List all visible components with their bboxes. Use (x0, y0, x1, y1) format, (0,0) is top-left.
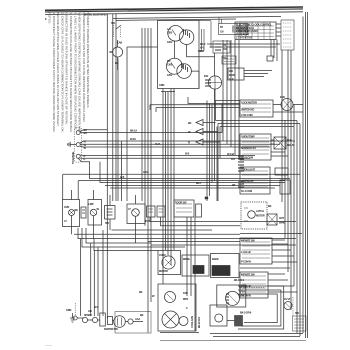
svg-text:MOTOR: MOTOR (159, 269, 168, 273)
power supply terminal L1 (68, 128, 82, 163)
svg-text:LMP: LMP (89, 202, 94, 206)
svg-text:IGNITOR SW: IGNITOR SW (104, 327, 118, 331)
wire (271, 40, 277, 62)
convection fan circle (281, 99, 293, 111)
element ticks (182, 63, 188, 72)
terminal dashed box (74, 128, 82, 163)
svg-text:3. CONNECTOR IN PLEASE RETURN: 3. CONNECTOR IN PLEASE RETURN STRAIGHT T… (69, 13, 73, 133)
right column: box1 lock motor (240, 99, 303, 118)
wire: pin bundle down (207, 89, 217, 201)
right column: box2 oven control (240, 134, 288, 160)
wires control to module (276, 24, 281, 36)
wire (162, 89, 164, 285)
fan motor circle (162, 311, 179, 328)
wire stubs to component row (72, 190, 136, 206)
terminal strip TB2 (238, 181, 244, 187)
connector arrows P1 (196, 120, 220, 146)
wire (213, 336, 300, 338)
wire (240, 233, 302, 235)
long verticals to bottom row (80, 239, 82, 316)
svg-text:MOD: MOD (229, 73, 235, 77)
component row: box oven light (63, 200, 80, 235)
notes text block (rotated) (48, 13, 91, 134)
svg-text:P COM N: P COM N (241, 260, 251, 264)
right column: box4 (240, 238, 297, 264)
bottom-left component row (70, 312, 151, 334)
svg-text:RELAY: RELAY (287, 143, 295, 147)
svg-text:2. CHECK CPN. 10 FLASHES T3 HO: 2. CHECK CPN. 10 FLASHES T3 HOURS CONNEC… (60, 13, 64, 133)
svg-text:SPARK: SPARK (84, 313, 92, 317)
wire (173, 89, 175, 251)
connector blob (267, 56, 273, 61)
comp cluster (82, 317, 87, 322)
left border vertical (106, 14, 108, 319)
svg-text:BK-8 W-9: BK-8 W-9 (234, 278, 245, 282)
svg-text:BK: BK (232, 183, 236, 187)
ground symbol (68, 142, 77, 147)
igniter contact marks (205, 80, 211, 86)
element ticks (184, 29, 190, 38)
svg-text:OVEN TEMP: OVEN TEMP (241, 135, 255, 139)
ground symbol (70, 313, 75, 322)
svg-text:1300: 1300 (167, 62, 173, 66)
svg-text:TCO: TCO (145, 219, 150, 223)
terminal circle (73, 316, 77, 320)
svg-text:DLB: DLB (287, 138, 292, 142)
svg-text:CAB: CAB (117, 41, 122, 45)
component row: box2 (88, 200, 102, 239)
small circle top (165, 292, 176, 303)
mid-bottom boxC bake element (211, 254, 240, 278)
relay rect with X (274, 137, 286, 149)
svg-text:WIRE: WIRE (279, 221, 285, 225)
wire (63, 174, 300, 199)
svg-text:BK-5 GR-6: BK-5 GR-6 (240, 311, 252, 315)
svg-text:BK: BK (188, 121, 192, 125)
wire (144, 28, 146, 226)
wire (82, 228, 185, 247)
svg-text:ULE: ULE (229, 77, 234, 81)
svg-text:INFINITE SW: INFINITE SW (241, 273, 255, 277)
top border lines (45, 7, 303, 15)
oven igniter circle (150, 53, 240, 112)
wire (148, 28, 240, 333)
bottom wires (160, 333, 303, 337)
svg-text:FAN: FAN (280, 95, 285, 99)
wire (78, 228, 296, 239)
svg-text:2350: 2350 (167, 30, 173, 34)
wire (80, 157, 250, 159)
wire (80, 130, 107, 132)
svg-text:CN: CN (223, 47, 227, 51)
svg-text:GR-8: GR-8 (143, 170, 149, 174)
svg-text:BK-7: BK-7 (196, 181, 202, 185)
wire (167, 92, 169, 255)
svg-text:4. LABEL ALL WIRES PRIOR TO DI: 4. LABEL ALL WIRES PRIOR TO DISCONNECTIO… (73, 13, 77, 131)
power supply terminal L2 (76, 154, 80, 158)
svg-text:CN: CN (220, 30, 224, 34)
svg-text:NOTES:: NOTES: (48, 13, 52, 24)
wire (112, 229, 213, 231)
svg-text:BAKE: BAKE (212, 257, 219, 261)
wire (105, 185, 280, 187)
svg-text:120V: 120V (167, 73, 173, 77)
mid-right small relay (267, 214, 277, 225)
terminal strip TB1 (238, 156, 244, 171)
svg-text:HOT: HOT (279, 216, 284, 220)
svg-text:BROIL: BROIL (183, 257, 191, 261)
power supply terminal N (76, 143, 80, 147)
svg-text:FAN: FAN (183, 291, 188, 295)
wire (281, 50, 283, 202)
svg-text:MTR: MTR (183, 297, 188, 301)
wire corner left of box (127, 47, 158, 201)
svg-text:BK: BK (75, 208, 79, 212)
wire (86, 228, 151, 243)
svg-text:IGN: IGN (204, 74, 208, 78)
wire (78, 181, 285, 200)
svg-text:DOOR SW: DOOR SW (175, 201, 187, 205)
svg-text:BK-2: BK-2 (200, 42, 206, 46)
wire (80, 154, 255, 157)
svg-text:5. VERIFY PROPER OPERATION AFT: 5. VERIFY PROPER OPERATION AFTER SERVICI… (86, 13, 90, 109)
door switch box (174, 200, 201, 331)
top-middle connector box B1 (219, 17, 249, 34)
svg-text:1 2 3 4 5 6 7 8 9: 1 2 3 4 5 6 7 8 9 (236, 36, 252, 40)
wire (240, 267, 290, 269)
wire (221, 104, 223, 133)
wire (120, 141, 122, 201)
top horizontal wires (113, 16, 281, 20)
motor circle (114, 316, 126, 328)
svg-text:SWITCH NO: SWITCH NO (241, 108, 254, 112)
right column: box5 (240, 272, 297, 298)
latch dashed box (241, 202, 267, 229)
wire (80, 145, 270, 148)
surface element circles pair 1 (168, 26, 184, 42)
svg-text:BK: BK (139, 290, 143, 294)
svg-text:R.F: R.F (167, 59, 171, 63)
svg-text:SENSOR CKT: SENSOR CKT (241, 146, 257, 150)
mid-bottom boxB broil element (182, 255, 209, 276)
component row: small comp (81, 207, 86, 218)
svg-text:BK: BK (110, 50, 114, 54)
svg-text:LOCK MOTOR: LOCK MOTOR (241, 101, 257, 105)
wire (151, 28, 296, 302)
wire (77, 318, 143, 322)
svg-text:MOTOR: MOTOR (256, 214, 265, 218)
svg-text:LATCH: LATCH (256, 209, 264, 213)
wire (210, 333, 303, 335)
wire (113, 16, 281, 18)
wire (216, 101, 221, 202)
wire (285, 50, 291, 310)
wire (302, 17, 304, 334)
svg-text:BK: BK (140, 313, 144, 317)
electronic control box (235, 22, 276, 40)
component row: comp5 (147, 206, 297, 222)
svg-text:OVN: OVN (64, 205, 69, 209)
connector P4 box (222, 56, 236, 64)
wire (115, 13, 117, 49)
bottom-right cluster (238, 286, 306, 331)
svg-text:BK: BK (268, 204, 272, 208)
svg-text:BK: BK (84, 131, 88, 135)
svg-text:R-3A: R-3A (155, 142, 161, 146)
wire (141, 28, 143, 201)
bottom border line (160, 340, 306, 342)
svg-text:MODEL 8101P546-60: MODEL 8101P546-60 (84, 13, 107, 17)
wire (80, 132, 222, 134)
wire (117, 59, 119, 202)
wires under control box (207, 17, 303, 334)
wire (94, 239, 158, 251)
svg-text:L1 H1 H2: L1 H1 H2 (241, 250, 251, 254)
svg-text:120V: 120V (167, 40, 173, 44)
wire (207, 44, 280, 47)
middle band horizontal wires (63, 130, 300, 200)
svg-text:W-14A: W-14A (227, 152, 234, 156)
svg-text:L.R: L.R (167, 27, 171, 31)
svg-text:CONNECTOR IN CASE RETURN STRAI: CONNECTOR IN CASE RETURN STRAIGHT TO RAN… (65, 13, 69, 125)
wire (100, 162, 285, 183)
DSI module connector box (228, 68, 272, 80)
wire (116, 19, 236, 20)
svg-text:BK-1A: BK-1A (130, 129, 137, 133)
surface element circles pair 2 (166, 58, 182, 74)
svg-text:WHEN SERVICING CONTROLS WIRING: WHEN SERVICING CONTROLS WIRING ERRORS CA… (78, 13, 82, 134)
wire (74, 233, 240, 235)
svg-text:N L1 COM: N L1 COM (241, 189, 252, 193)
right column: box3 (240, 167, 290, 194)
blower motor circle (113, 25, 158, 201)
wires to bus (271, 140, 288, 156)
svg-text:INFINITE SW: INFINITE SW (241, 239, 255, 243)
svg-text:GR: GR (88, 309, 92, 313)
wires between box1 and box2 (216, 105, 301, 337)
spark module tall box (276, 20, 294, 50)
bottom-middle outer box (158, 284, 196, 331)
svg-text:. . . . . . .: . . . . . . . (45, 344, 52, 347)
svg-text:W-2A: W-2A (130, 137, 136, 141)
wire (165, 92, 167, 250)
svg-text:BEFORE MOUNTING WIRE COVER CHE: BEFORE MOUNTING WIRE COVER CHECK WIRES I… (56, 13, 60, 127)
component row: box4 (127, 204, 145, 243)
mid-bottom boxA conv motor (158, 251, 181, 275)
svg-text:GRN: GRN (159, 83, 164, 87)
svg-text:DSI: DSI (229, 69, 233, 73)
wire (160, 332, 199, 334)
svg-text:BK-20 W-4: BK-20 W-4 (197, 316, 201, 328)
band vertical wires (118, 28, 296, 333)
wire (112, 14, 114, 202)
wire (161, 91, 175, 93)
component row: box3 (105, 206, 116, 231)
small circle right (179, 317, 188, 326)
wire (80, 143, 280, 145)
right border (306, 12, 308, 338)
svg-text:AAA: AAA (135, 317, 140, 321)
component row: comp6 (157, 206, 240, 226)
top-left surface element box (158, 21, 215, 89)
nested staircase wires (74, 228, 296, 316)
label TO RANGE (rotated) (71, 151, 75, 164)
wire (78, 158, 290, 178)
wire (80, 141, 295, 143)
svg-text:P4-1: P4-1 (223, 56, 228, 60)
connector box B2 (199, 21, 230, 54)
bottom-middle right box (210, 285, 246, 326)
internal wires (173, 41, 175, 58)
svg-text:1. DISCONNECT RANGE FROM POWER: 1. DISCONNECT RANGE FROM POWER SUPPLY BE… (52, 13, 56, 133)
svg-text:DANGEROUS OPERATION AND CAN CA: DANGEROUS OPERATION AND CAN CAUSE IMPROP… (82, 13, 86, 123)
wire (170, 89, 172, 266)
svg-text:CONV: CONV (159, 253, 166, 257)
svg-text:L1 N DJB BR CN MV: L1 N DJB BR CN MV (236, 29, 258, 33)
svg-text:GRD: GRD (66, 308, 71, 312)
svg-text:COOL FAN: COOL FAN (190, 316, 194, 328)
blower switch dashes (114, 25, 121, 37)
wire: connector pins down (223, 40, 239, 158)
svg-text:C NC COM: C NC COM (241, 113, 253, 117)
svg-text:TO RANGE: TO RANGE (71, 151, 75, 164)
wire (110, 187, 275, 189)
svg-text:OV LT: OV LT (284, 297, 291, 301)
nested corner wires (238, 286, 284, 329)
